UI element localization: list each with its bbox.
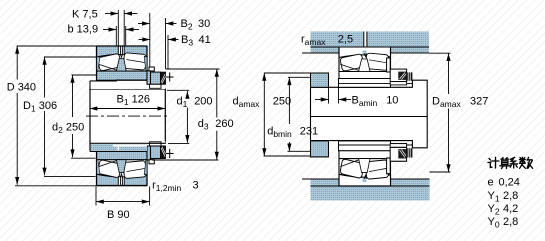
- roller right: [123, 53, 146, 70]
- cage rib: [359, 59, 370, 72]
- B1 dimension: [90, 108, 166, 110]
- shaft: [311, 80, 428, 148]
- housing bottom band: [311, 179, 430, 201]
- groove gap in outer ring: [118, 45, 124, 54]
- washer step under nut: [150, 84, 162, 88]
- svg-text:d3260: d3260: [198, 118, 234, 132]
- roller left: [97, 53, 121, 71]
- svg-text:D1 306: D1 306: [23, 100, 57, 114]
- washer tab: [387, 58, 391, 72]
- outer ring: [97, 46, 148, 57]
- D_amax: [429, 52, 451, 54]
- svg-text:d2 250: d2 250: [52, 122, 84, 136]
- B dimension: [95, 187, 97, 206]
- inner ring + sleeve band: [97, 71, 147, 80]
- B_amin: [328, 87, 330, 103]
- B2 / B3 dimension: [149, 13, 151, 67]
- inner ring: [339, 72, 391, 81]
- groove V: [364, 54, 366, 57]
- svg-text:Y24,2: Y24,2: [488, 203, 519, 217]
- sleeve: [339, 79, 391, 88]
- thread comb: [407, 72, 413, 80]
- cage rib: [116, 59, 126, 72]
- d2 dimension: [72, 74, 98, 76]
- D dimension: [17, 45, 97, 47]
- rollers: [340, 54, 364, 72]
- locknut: [390, 69, 406, 82]
- svg-text:Y12,8: Y12,8: [488, 190, 519, 204]
- D1 dimension: [44, 56, 97, 58]
- svg-text:D 340: D 340: [7, 82, 36, 94]
- d_amax: [264, 72, 311, 74]
- adapter sleeve body rectangle B1: [90, 89, 165, 143]
- lower bearing assembly (mirrored): [90, 141, 174, 186]
- svg-text:d1200: d1200: [177, 96, 213, 110]
- housing groove lines: [364, 32, 367, 48]
- lock washer: [147, 71, 151, 85]
- K dimension lines: [117, 10, 119, 45]
- d1 dimension: [167, 89, 189, 91]
- washer tab: [149, 67, 154, 71]
- svg-text:b 13,9: b 13,9: [68, 24, 99, 36]
- housing top band: [311, 32, 430, 54]
- svg-text:e0,24: e0,24: [488, 176, 520, 188]
- svg-text:K 7,5: K 7,5: [72, 9, 98, 21]
- thread cross: [166, 76, 174, 78]
- upper bearing assembly (left figure): [90, 45, 174, 89]
- svg-text:Y02,8: Y02,8: [488, 216, 519, 230]
- sleeve (white strip): [90, 81, 165, 89]
- outer ring: [339, 47, 391, 58]
- svg-text:B1 126: B1 126: [117, 94, 151, 108]
- bottom sleeve blue strip: [90, 142, 165, 144]
- right bearing assembly: [311, 47, 413, 87]
- d_bmin: [288, 76, 311, 78]
- locknut body: [151, 72, 161, 84]
- svg-text:B 90: B 90: [107, 209, 130, 221]
- locknut hatched end: [161, 72, 166, 84]
- b dimension lines: [115, 26, 117, 45]
- centerline: [86, 115, 168, 117]
- d3 dimension: [166, 68, 220, 70]
- shaft shoulder block: [311, 73, 329, 87]
